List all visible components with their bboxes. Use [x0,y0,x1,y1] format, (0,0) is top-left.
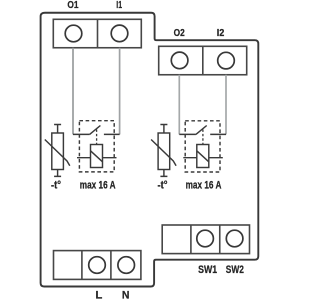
relay K1 actuator dashed link [96,130,98,145]
svg-text:max 16 A: max 16 A [80,179,116,191]
relay K1 drive leads [77,157,117,159]
terminal I2 screw [218,52,235,69]
terminal block O1/I1 [53,19,141,47]
relay K1 drive element [91,145,103,168]
terminal O1 screw [65,25,82,42]
relay K1 dashed enclosure [79,121,114,172]
terminal L screw [89,257,106,274]
relay K2 dashed enclosure [185,121,220,172]
terminal block L/N [54,251,141,280]
device enclosure outline [41,13,259,287]
svg-text:max 16 A: max 16 A [186,179,222,191]
terminal O2 screw [171,52,188,69]
wire I2 to relay contact K2 [225,75,227,135]
terminal SW1 screw [197,230,214,247]
relay K1 switch contact [73,126,120,135]
terminal block O2/I2 [159,46,247,74]
terminal block SW1/SW2 [162,225,249,254]
svg-text:SW1: SW1 [198,264,218,276]
svg-text:N: N [122,290,130,300]
terminal N screw [118,257,135,274]
relay K2 drive leads [183,157,223,159]
thermistor RT1 [52,133,64,170]
svg-text:I2: I2 [217,28,225,39]
svg-text:SW2: SW2 [226,264,244,276]
terminal SW2 screw [226,230,243,247]
wire I1 to relay contact K1 [119,48,121,135]
relay K2 switch contact [179,126,226,135]
relay K2 drive element [197,145,209,168]
wire O1 to relay contact K1 [72,48,74,135]
relay K2 actuator dashed link [202,130,204,145]
terminal I1 screw [111,25,128,42]
svg-text:-t°: -t° [51,179,61,191]
svg-text:O2: O2 [174,28,185,39]
thermistor RT2 [158,133,170,170]
wire O2 to relay contact K2 [178,75,180,135]
svg-text:L: L [95,290,102,300]
svg-text:O1: O1 [67,0,78,11]
svg-text:I1: I1 [116,0,122,11]
svg-text:-t°: -t° [158,179,168,191]
